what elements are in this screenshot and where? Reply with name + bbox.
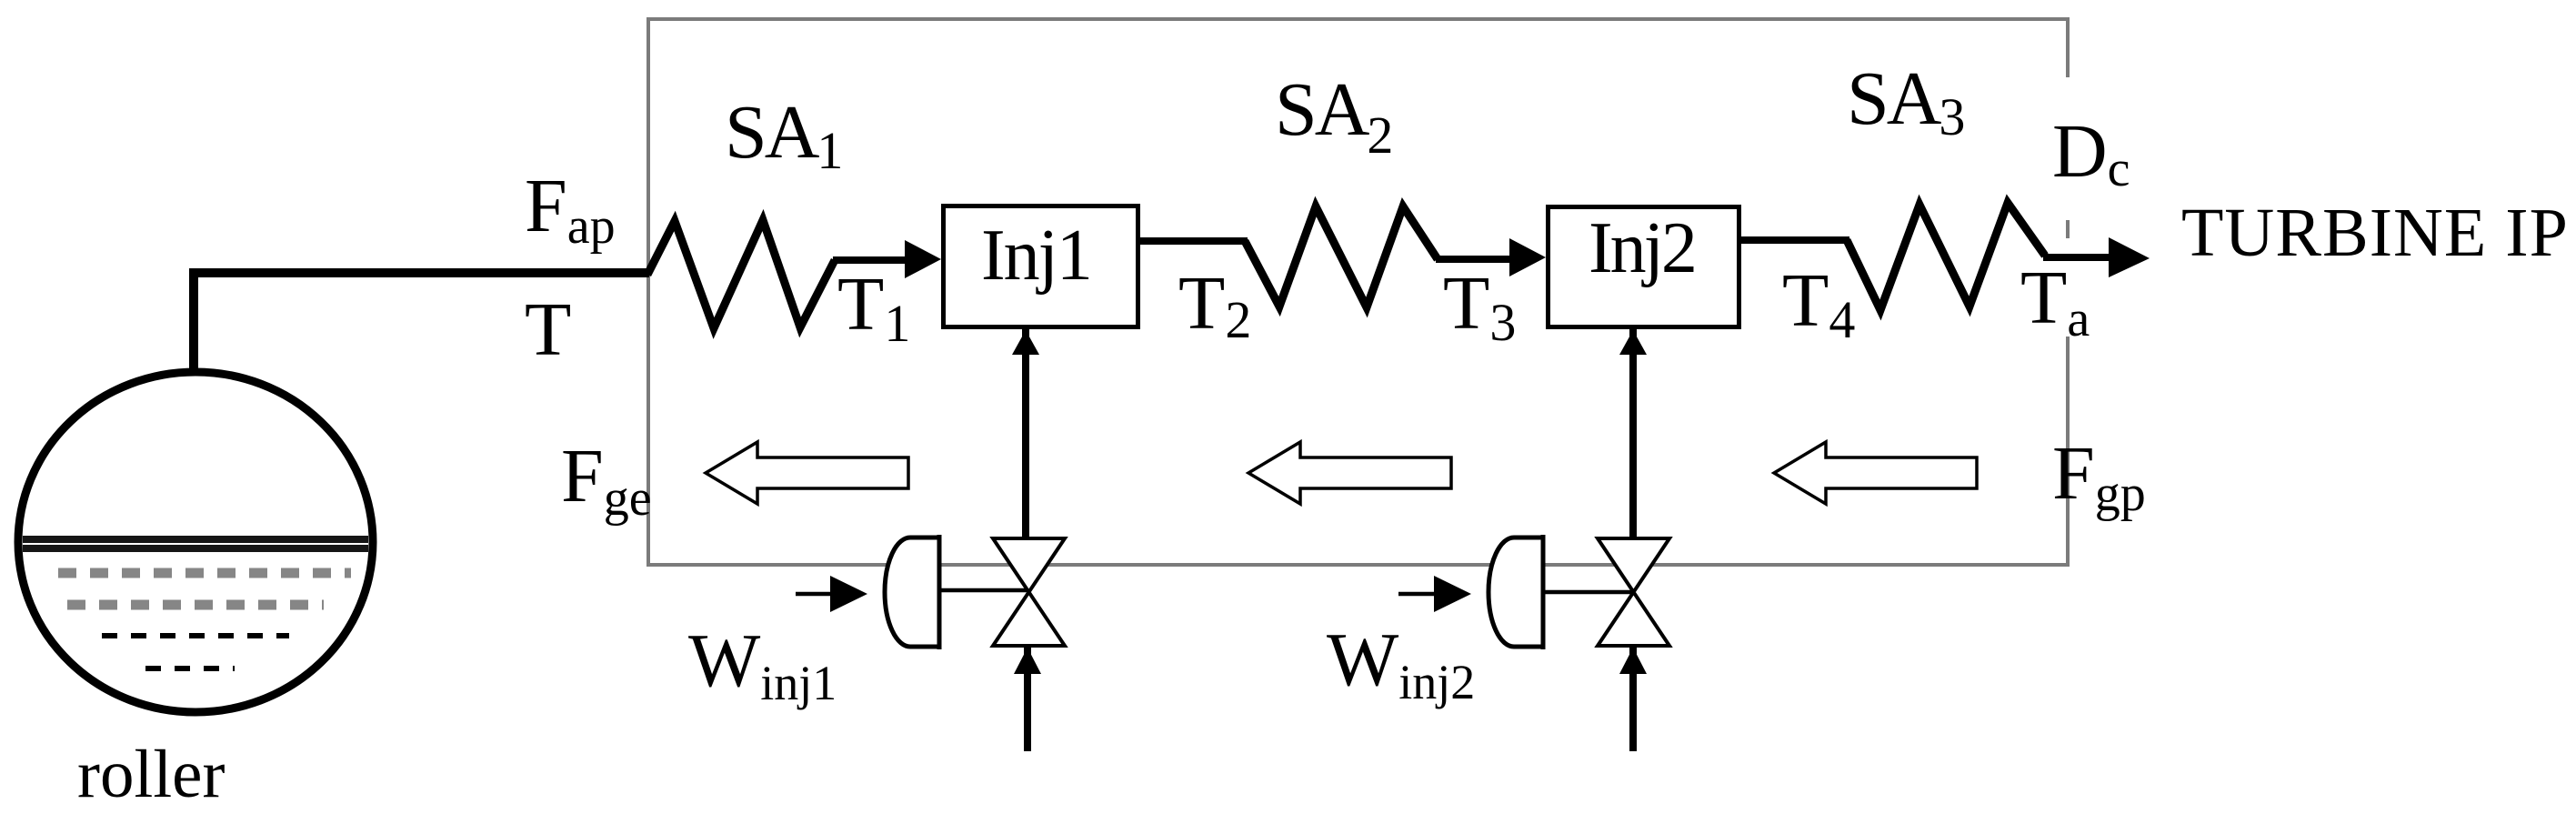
svg-text:Inj1: Inj1 — [981, 216, 1091, 296]
roller drum — [18, 372, 373, 712]
water dashes row 4 — [145, 666, 235, 671]
svg-text:Winj1: Winj1 — [688, 618, 837, 710]
water dashes row 2 — [67, 600, 324, 610]
outlet arrowhead — [2109, 237, 2150, 277]
superheater coil SA2 — [1245, 206, 1438, 307]
water dashes row 1 — [58, 568, 351, 578]
svg-text:SA1: SA1 — [725, 90, 843, 180]
wire Inj1 to SA2 — [1140, 237, 1248, 245]
water level line — [23, 536, 368, 543]
svg-text:Fap: Fap — [525, 164, 616, 255]
control signal arrow W_inj2 — [1398, 592, 1438, 597]
actuator rod V1 — [939, 588, 1027, 593]
flue gas arrow middle (hollow) — [1248, 442, 1451, 504]
superheater coil SA1 — [647, 220, 835, 328]
spray water pipe below valve2 — [1629, 648, 1637, 751]
water dashes row 3 — [102, 633, 289, 638]
enclosure bottom edge — [647, 563, 2070, 567]
enclosure left edge — [647, 17, 650, 567]
svg-text:TURBINE IP: TURBINE IP — [2181, 195, 2569, 271]
spray water pipe below valve1 — [1024, 648, 1031, 751]
svg-text:T2: T2 — [1178, 261, 1251, 349]
svg-text:Fge: Fge — [561, 434, 652, 527]
svg-text:T: T — [525, 287, 571, 372]
flue gas arrow right (hollow) — [1774, 442, 1977, 504]
superheater coil SA3 — [1847, 203, 2045, 310]
injector box Inj2 — [1549, 207, 1739, 327]
arrowhead into Inj1 — [905, 240, 941, 278]
svg-text:SA3: SA3 — [1847, 56, 1965, 146]
injector box Inj1 — [944, 206, 1138, 327]
valve V2 body — [1598, 538, 1669, 646]
arrowhead into Inj2 — [1509, 238, 1546, 276]
actuator A2 — [1488, 535, 1543, 649]
arrowhead up into Inj2 — [1619, 330, 1647, 355]
svg-text:roller: roller — [77, 737, 225, 812]
arrowhead up into valve1 — [1014, 648, 1041, 674]
actuator rod V2 — [1543, 590, 1633, 595]
flue gas arrow left (hollow) — [706, 442, 908, 504]
svg-text:Inj2: Inj2 — [1589, 208, 1695, 288]
arrowhead up into Inj1 — [1012, 330, 1039, 355]
outlet wire to turbine — [2043, 254, 2114, 261]
arrowhead up into valve2 — [1619, 648, 1647, 674]
svg-text:SA2: SA2 — [1275, 67, 1393, 165]
svg-text:T4: T4 — [1782, 258, 1855, 349]
svg-text:Ta: Ta — [2020, 256, 2090, 347]
svg-text:T3: T3 — [1443, 261, 1516, 352]
svg-text:Winj2: Winj2 — [1327, 618, 1475, 709]
steam pipe from roller — [189, 273, 649, 375]
enclosure top edge — [647, 17, 2070, 21]
svg-text:T1: T1 — [837, 262, 910, 353]
control signal arrow W_inj1 — [796, 592, 835, 597]
valve V1 body — [993, 538, 1065, 646]
wire Inj2 to SA3 — [1741, 236, 1849, 244]
wire into Inj2 — [1436, 256, 1514, 263]
injection pipe Inj1-valve1 — [1022, 329, 1029, 540]
wire into Inj1 — [833, 256, 909, 264]
svg-text:Dc: Dc — [2052, 109, 2130, 197]
enclosure right edge (segmented around labels) — [2066, 17, 2070, 565]
injection pipe Inj2-valve2 — [1629, 329, 1637, 540]
svg-text:Fgp: Fgp — [2052, 431, 2146, 522]
actuator A1 — [885, 535, 939, 649]
